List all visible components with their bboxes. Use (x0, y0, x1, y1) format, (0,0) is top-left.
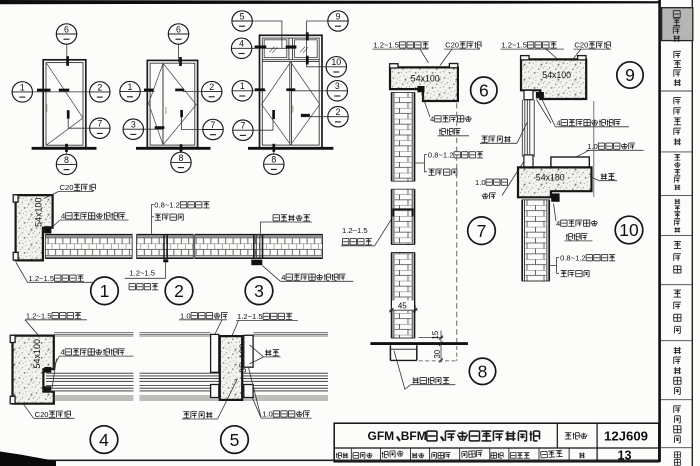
svg-text:54x100: 54x100 (542, 70, 571, 80)
door 3 transom glass pane right (295, 40, 318, 58)
detail circle 9 (617, 62, 643, 88)
detail 4 frame profile with glass slot (10, 335, 54, 403)
detail 1 rotated size label 54x100 (34, 197, 44, 227)
door 3 callout 5 leader (252, 21, 282, 48)
svg-text:1: 1 (240, 81, 245, 91)
detail 6 head profile C20 54x100 (390, 64, 458, 102)
callout bubble 3 (327, 81, 347, 101)
detail circle 3 (245, 277, 273, 305)
svg-text:1.0: 1.0 (587, 142, 598, 151)
svg-text:6: 6 (479, 80, 489, 100)
title block row2 texts (336, 448, 632, 462)
detail 9 right pressing strip (551, 157, 589, 167)
detail circle 1 (91, 277, 119, 305)
detail 10 seal block at rail (551, 193, 559, 201)
callout bubble 8 (56, 154, 76, 174)
door 2 swing diagonals wide leaf (163, 63, 196, 144)
door 1 floor line (32, 147, 97, 150)
callout bubble 2 (328, 107, 348, 127)
svg-text:1.2~1.5: 1.2~1.5 (342, 226, 368, 235)
svg-text:12J609: 12J609 (604, 429, 648, 444)
door 1 cut line 1-2 (33, 91, 90, 93)
svg-text:2: 2 (336, 107, 341, 117)
svg-text:1.0: 1.0 (475, 178, 486, 187)
svg-text:54x180: 54x180 (536, 173, 565, 183)
callout bubble 7 (90, 118, 110, 138)
door 2 floor line (136, 147, 211, 150)
svg-text:8: 8 (179, 153, 184, 163)
svg-text:13: 13 (617, 448, 631, 462)
svg-text:54x100: 54x100 (34, 197, 44, 227)
detail 6 seal block (417, 86, 424, 92)
svg-text:1.2~1.5: 1.2~1.5 (26, 311, 52, 320)
detail circle 10 (615, 216, 643, 244)
svg-text:9: 9 (625, 65, 635, 85)
door elevation 2 frame (147, 60, 197, 147)
sidebar tab: 侧平卷帘 (674, 406, 681, 443)
door 2 callout 1 (140, 91, 154, 93)
detail circle 4 (90, 426, 118, 454)
page top border (0, 0, 659, 4)
door 3 transom glass pane left (264, 40, 287, 58)
callout bubble 10 (326, 57, 346, 77)
svg-text:54x100: 54x100 (32, 339, 42, 369)
bottom-left scan edge (0, 452, 56, 466)
detail 9 seal block at head (536, 92, 544, 98)
label spot weld detail9 (601, 173, 603, 179)
svg-text:7: 7 (240, 121, 245, 131)
detail 5 pressing strips (211, 334, 219, 372)
svg-text:54x100: 54x100 (411, 74, 440, 84)
door 3 callout 9 leader (307, 21, 328, 41)
detail 9 mid rail 54x180 (518, 167, 592, 197)
detail 4 rotated size label 54x100 (32, 339, 42, 369)
svg-text:8: 8 (478, 362, 488, 382)
door 3 swing diagonals left leaf (262, 62, 291, 145)
svg-text:1: 1 (20, 82, 25, 92)
svg-text:8: 8 (64, 155, 69, 165)
door 2 swing diagonals narrow leaf (149, 63, 163, 144)
callout bubble 7 (233, 120, 253, 140)
label door frame fixing piece (413, 377, 415, 383)
svg-text:4: 4 (281, 273, 285, 282)
detail 1 fire expansion seal block (44, 226, 51, 233)
door 3 callout 7 (253, 118, 273, 130)
leaf vertical strip segment 2 (detail 7) (391, 189, 415, 244)
door 2 callout 3 (144, 128, 163, 130)
door 2 leader to callout 6 (178, 44, 180, 62)
detail 5 mullion core 35x100 (220, 336, 242, 400)
detail 3 joint channels (254, 234, 263, 259)
detail 9 bottom-left pressing square (524, 155, 533, 167)
transom fire glass vertical lines (522, 100, 534, 157)
window outer face lines detail4-5 (54, 333, 328, 336)
sidebar tab: 附录 (674, 452, 680, 465)
label fire glass 防火玻璃 (183, 411, 189, 413)
door 2 callout 2 (183, 91, 202, 93)
svg-text:1: 1 (128, 82, 133, 92)
door 3 callout 3 (292, 90, 327, 92)
svg-text:C20: C20 (445, 41, 459, 50)
detail circle 6 (471, 77, 497, 103)
door 3 swing diagonals right leaf (291, 62, 320, 145)
svg-text:0.8~1.2: 0.8~1.2 (560, 253, 586, 262)
door 3 callout 4 leader (252, 47, 296, 49)
svg-text:1.2~1.5: 1.2~1.5 (29, 274, 55, 283)
callout bubble 1 (232, 81, 252, 101)
svg-text:4: 4 (61, 348, 65, 357)
svg-text:2: 2 (174, 281, 184, 301)
svg-text:C20: C20 (60, 183, 74, 192)
label spot weld 点焊 (265, 350, 267, 356)
door 1 swing diagonals (46, 63, 83, 145)
callout bubble 8 (264, 154, 284, 174)
atlas no label 图集号 (565, 432, 572, 434)
face line detail9 column (593, 101, 595, 197)
detail 8 floor line (370, 342, 468, 345)
dimension 15/30 vertical (419, 330, 444, 362)
svg-text:1.0: 1.0 (180, 311, 191, 320)
detail 2 stiffener joint (164, 234, 167, 259)
svg-text:6: 6 (176, 24, 181, 34)
svg-text:4: 4 (556, 118, 560, 127)
dimension 45 leaf thickness (389, 301, 417, 313)
callout bubble 5 (232, 11, 252, 31)
detail 9 top pressing square (524, 90, 533, 99)
sidebar tab: 防火卷帘 (674, 290, 681, 333)
callout bubble 4 (231, 38, 251, 58)
door 3 callout 10 leader (307, 41, 327, 67)
sidebar dividers (661, 90, 692, 92)
svg-text:4: 4 (430, 115, 434, 124)
svg-text:6: 6 (64, 24, 69, 34)
label fire glass detail9 (481, 135, 487, 137)
svg-text:8: 8 (271, 155, 276, 165)
svg-text:C20: C20 (574, 41, 588, 50)
sidebar tab: 防火窗 (674, 242, 681, 273)
svg-text:1.2~1.5: 1.2~1.5 (129, 268, 155, 277)
door 1 leader to callout 6 (66, 44, 68, 65)
callout bubble 8 (171, 152, 191, 172)
sidebar tab: 木防火门 (674, 51, 681, 86)
svg-text:5: 5 (230, 430, 240, 450)
svg-text:3: 3 (335, 81, 340, 91)
sidebar right line (691, 0, 693, 466)
svg-text:7: 7 (211, 120, 216, 130)
detail circle 5 (221, 426, 249, 454)
svg-text:9: 9 (336, 11, 341, 21)
door 3 transom mullion (288, 38, 290, 60)
svg-text:0.8~1.2: 0.8~1.2 (154, 201, 180, 210)
svg-text:10: 10 (331, 57, 341, 67)
detail 2 leaf strip section (137, 234, 194, 259)
door 1 leader to callout 8 (66, 148, 68, 154)
detail 3 leaf strip section (195, 234, 323, 259)
sidebar tab: 模压防火门 (674, 154, 680, 190)
svg-text:7: 7 (97, 119, 102, 129)
callout bubble 9 (328, 11, 348, 31)
detail 4 seal blocks at glass slot (44, 367, 51, 373)
leaf top channel stiffener (394, 209, 413, 216)
sidebar tab: 管井防火门 (674, 199, 680, 233)
door 3 transom rail (262, 59, 319, 61)
svg-text:0.8~1.2: 0.8~1.2 (428, 151, 454, 160)
sidebar divider thick line (658, 0, 661, 462)
door 3 callout 2 (301, 116, 328, 118)
svg-text:1.0: 1.0 (262, 410, 273, 419)
detail circle 2 (165, 277, 193, 305)
svg-text:4: 4 (99, 430, 109, 450)
svg-text:BFM: BFM (401, 429, 427, 443)
svg-text:1: 1 (100, 281, 110, 301)
title block frame (334, 423, 659, 462)
door 1 leader to callout 7 (68, 111, 89, 128)
svg-text:GFM: GFM (368, 429, 395, 443)
callout bubble 7 (203, 119, 223, 139)
door frame fixing piece below floor (390, 345, 416, 360)
svg-text:7: 7 (477, 221, 487, 241)
door 2 meeting stile (162, 63, 164, 145)
label steel cover plate (273, 214, 279, 216)
door 3 callout 8 (273, 149, 275, 155)
callout bubble 6 (56, 24, 76, 44)
callout bubble 3 (123, 119, 143, 139)
window inner face lines detail4-5 (54, 396, 328, 400)
detail 9 head profile C20 54x100 (521, 56, 587, 99)
svg-text:2: 2 (209, 82, 214, 92)
svg-text:4: 4 (61, 212, 65, 221)
sidebar tab: 木装防火门 (674, 98, 681, 146)
detail 1 frame profile C20 concrete 54x100 (13, 195, 52, 261)
svg-text:15: 15 (431, 330, 440, 339)
door elevation 1 frame (43, 60, 86, 148)
door 3 floor line (248, 147, 333, 150)
page bottom border (0, 459, 659, 461)
svg-text:1.2~1.5: 1.2~1.5 (373, 41, 399, 50)
door 3 meeting stiles (289, 62, 291, 146)
svg-text:10: 10 (619, 220, 639, 240)
svg-text:4: 4 (556, 219, 560, 228)
callout bubble 1 (12, 82, 32, 102)
detail 3 cover plate (251, 260, 262, 266)
door 2 callout 8 (180, 148, 182, 152)
label fire material (155, 213, 161, 215)
detail 1 leaf strip section (45, 234, 132, 259)
door elevation 3 frame (260, 35, 323, 148)
leaf vertical strip below rail (detail 10) (522, 200, 550, 281)
svg-text:30: 30 (433, 349, 442, 358)
svg-text:4: 4 (239, 39, 244, 49)
callout bubble 1 (120, 81, 140, 101)
faint stamp marks on door stiles (46, 104, 48, 112)
detail 5 rotated size label 35x100 (238, 343, 248, 373)
svg-text:45: 45 (398, 301, 407, 310)
svg-text:3: 3 (131, 120, 136, 130)
sidebar tab: 钢防火门 (active) (662, 8, 693, 42)
svg-text:1.2~1.5: 1.2~1.5 (501, 41, 527, 50)
svg-text:1.2~1.5: 1.2~1.5 (237, 312, 263, 321)
svg-text:2: 2 (97, 82, 102, 92)
detail circle 8 (469, 358, 495, 384)
wall finish dashed line detail 6-8 (456, 103, 458, 342)
leaf vertical strip segment 1 (detail 6) (391, 92, 415, 181)
door 3 callout 1 (253, 90, 267, 92)
svg-text:3: 3 (254, 281, 264, 301)
svg-text:5: 5 (240, 11, 245, 21)
fire glass lines detail4-5 (46, 373, 328, 391)
callout bubble 2 (202, 81, 222, 101)
callout bubble 2 (90, 82, 110, 102)
door 2 callout 7 (182, 117, 203, 130)
detail circle 7 (468, 217, 496, 245)
callout bubble 6 (168, 24, 188, 44)
sidebar tab: 带小门卷帘 (674, 347, 681, 394)
svg-text:C20: C20 (35, 410, 49, 419)
leaf vertical strip segment 3 (details 7-8) (391, 253, 415, 339)
